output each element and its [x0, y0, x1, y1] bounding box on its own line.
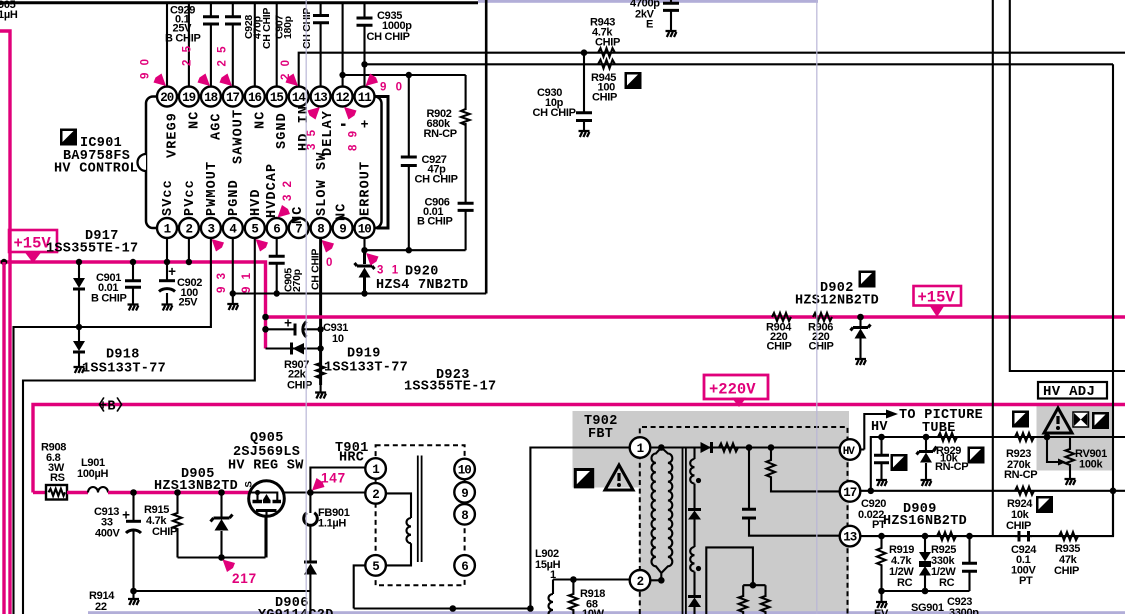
test wedge pin3 — [212, 239, 225, 252]
flag symbol T902 — [574, 468, 594, 488]
node dot pin17 right — [1110, 488, 1117, 495]
svg-text:CHIP: CHIP — [1054, 565, 1079, 577]
svg-text:3300p: 3300p — [949, 607, 979, 614]
node dot HV res branch — [768, 444, 775, 451]
svg-text:HZS12NB2TD: HZS12NB2TD — [795, 294, 879, 309]
resistor R904 — [766, 313, 792, 353]
node dot gate net — [218, 554, 225, 561]
capacitor C906 — [417, 197, 474, 228]
pin 14 — [289, 87, 309, 107]
svg-text:+: + — [361, 119, 369, 134]
svg-text:NC: NC — [335, 203, 350, 221]
wire pin8 net vertical — [319, 239, 322, 385]
T901 core — [418, 456, 422, 563]
svg-text:HZS16NB2TD: HZS16NB2TD — [883, 514, 967, 529]
capacitor C902 electrolytic — [159, 262, 202, 309]
svg-text:17: 17 — [226, 91, 240, 105]
wire R902/C906 branch vertical — [465, 75, 467, 250]
+220V label box — [704, 375, 768, 399]
transformer T901 label — [335, 441, 369, 466]
capacitor C901 — [91, 262, 141, 305]
diode D906 label — [258, 596, 334, 614]
wire pin16 line up — [254, 3, 256, 87]
node dot R929 — [923, 434, 930, 441]
svg-text:AGC: AGC — [209, 112, 224, 140]
resistor R923 — [1004, 433, 1037, 481]
wire FB901 branch down — [309, 493, 311, 562]
svg-text:270p: 270p — [291, 269, 303, 292]
pin 17 — [223, 87, 243, 107]
inductor L902 — [535, 548, 561, 614]
svg-text:CH CHIP: CH CHIP — [367, 31, 410, 43]
svg-text:HV CONTROL: HV CONTROL — [54, 162, 138, 177]
node dot rail x3 — [1, 259, 7, 265]
transistor Q905 label — [228, 431, 304, 474]
svg-text:+B: +B — [99, 400, 116, 415]
svg-text:HVDCAP: HVDCAP — [265, 163, 280, 218]
pin 3 — [201, 218, 221, 238]
node dot line C / C927 branch — [406, 72, 412, 78]
ground EV — [874, 591, 889, 614]
T902 pin 2 — [630, 570, 651, 591]
pin 9 — [333, 218, 353, 238]
svg-text:HRC: HRC — [339, 451, 364, 466]
node dot R919 — [878, 533, 885, 540]
resistor R925 — [931, 532, 956, 589]
diode D902 label — [795, 281, 879, 309]
+B / +220V rail — [33, 405, 1125, 493]
node dot lower network — [750, 582, 757, 589]
svg-text:RS: RS — [50, 472, 65, 484]
diode D919 label — [324, 347, 408, 376]
svg-text:217: 217 — [232, 571, 257, 586]
svg-text:6: 6 — [273, 223, 280, 237]
svg-text:20: 20 — [160, 91, 174, 105]
node dot HV net left — [878, 434, 885, 441]
svg-text:YG9114C2D: YG9114C2D — [258, 608, 334, 614]
T901 pin 9 — [454, 482, 475, 503]
capacitor C930 — [533, 53, 593, 130]
svg-text:ERROUT: ERROUT — [359, 161, 374, 216]
wire pin10 D920 branch — [363, 250, 366, 293]
transformer T901 box — [376, 445, 465, 585]
wire HV output line — [695, 446, 841, 448]
resistor internal lower left — [739, 596, 748, 614]
svg-text:HV REG SW: HV REG SW — [228, 459, 304, 474]
svg-text:11: 11 — [358, 91, 372, 105]
resistor R943 in line A — [590, 17, 620, 57]
node dot rail C901 — [130, 259, 136, 265]
capacitor C920 label — [858, 498, 886, 531]
HV ADJ grey panel — [1037, 405, 1115, 471]
svg-text:0: 0 — [326, 257, 334, 269]
test wedge pin14 — [286, 74, 299, 87]
svg-text:〉: 〉 — [116, 396, 131, 415]
node dot HV cap branch — [746, 444, 753, 451]
HV ADJ label box — [1038, 382, 1107, 400]
T901 primary winding — [386, 493, 411, 565]
wire gate net — [178, 517, 266, 558]
page fold line right — [816, 0, 818, 614]
svg-text:RN-CP: RN-CP — [935, 461, 968, 473]
diode D918 — [73, 327, 85, 366]
T902 pin 17 — [840, 481, 861, 502]
wire pin18 line up — [210, 3, 212, 87]
svg-text:S: S — [244, 481, 255, 487]
svg-text:9 0: 9 0 — [140, 57, 152, 79]
node dot D902 — [857, 314, 864, 321]
svg-text:NC: NC — [253, 111, 268, 129]
wedge +220V — [732, 398, 747, 408]
svg-text:CHIP: CHIP — [592, 92, 617, 104]
test wedge pin13 — [308, 107, 321, 120]
node dot D918 top — [76, 324, 82, 330]
node dot D920 gnd net — [361, 290, 367, 296]
pin 2 — [179, 218, 199, 238]
wire EV net — [882, 590, 970, 592]
node dot C905 gnd — [274, 290, 280, 296]
svg-text:RN-CP: RN-CP — [1004, 469, 1037, 481]
+B feed wire to R908 — [33, 491, 46, 494]
svg-text:SAWOUT: SAWOUT — [231, 109, 246, 164]
capacitor C935 — [357, 10, 413, 43]
svg-text:SGND: SGND — [275, 112, 290, 149]
diode D906 — [304, 562, 317, 614]
capacitor C905 — [269, 249, 322, 292]
svg-text:+220V: +220V — [709, 381, 756, 399]
resistor R918 — [569, 580, 605, 614]
test wedge pin18 — [198, 74, 211, 87]
svg-text:RN-CP: RN-CP — [424, 128, 457, 140]
wire C913 bottom net — [134, 590, 311, 592]
capacitor 4700p 2kV E — [630, 0, 679, 31]
svg-text:RC: RC — [897, 577, 913, 589]
wire Q905 drain to T901 — [284, 491, 375, 493]
capacitor C923 — [947, 536, 979, 614]
resistor R929 label — [935, 445, 968, 473]
svg-text:SLOW SW: SLOW SW — [315, 152, 330, 216]
svg-text:PT: PT — [1019, 575, 1033, 587]
wire pin6 stub — [276, 239, 278, 294]
diode D923 label — [404, 368, 496, 395]
zener D920 — [355, 263, 375, 278]
+15V label box left — [9, 230, 57, 253]
svg-text:+: + — [122, 510, 130, 525]
T902 secondary winding upper — [690, 448, 701, 509]
capacitor C927 — [401, 154, 458, 186]
ground C913 — [128, 599, 139, 605]
svg-text:8: 8 — [461, 509, 468, 523]
wire Q905 gate down — [265, 516, 267, 557]
svg-text:22: 22 — [95, 601, 107, 613]
svg-text:9: 9 — [461, 487, 468, 501]
wedge +15V left — [25, 253, 41, 264]
svg-text:NC: NC — [291, 206, 306, 224]
ground 4700p — [666, 31, 677, 37]
svg-text:1: 1 — [372, 463, 379, 477]
wire heater net — [553, 578, 631, 580]
wire line B from pin11 node — [365, 63, 1114, 65]
wire line C from pin12 node — [343, 74, 466, 76]
node dot rail D917 — [76, 259, 82, 265]
ground D902 — [855, 359, 866, 365]
ground C930 — [579, 131, 590, 137]
svg-text:NC: NC — [187, 111, 202, 129]
wire line C corner into R902 branch — [343, 74, 466, 76]
transistor Q905 — [244, 481, 285, 517]
test wedge pin12 — [344, 107, 357, 120]
pin 10 — [355, 218, 375, 238]
capacitor C924 — [1011, 531, 1037, 587]
flag symbol R924 — [1036, 496, 1053, 513]
node dot bottom rail b — [527, 605, 534, 612]
ground C901 — [128, 305, 139, 311]
capacitor HV filter — [874, 437, 889, 479]
svg-text:1SS133T-77: 1SS133T-77 — [324, 361, 408, 376]
test wedge pin11 — [366, 74, 379, 87]
resistor R919 — [877, 536, 914, 591]
node dot RV901 wiper — [1044, 434, 1051, 441]
node dot R918 — [570, 576, 577, 583]
svg-text:8: 8 — [317, 223, 324, 237]
wire pin15 line up — [276, 3, 278, 87]
svg-text:19: 19 — [182, 91, 196, 105]
svg-text:15: 15 — [270, 91, 284, 105]
svg-text:CHIP: CHIP — [1006, 520, 1031, 532]
resistor R935 — [1054, 532, 1080, 577]
svg-text:5: 5 — [372, 560, 379, 574]
svg-text:CH CHIP: CH CHIP — [261, 8, 273, 49]
svg-text:B CHIP: B CHIP — [91, 293, 126, 305]
potentiometer RV901 — [1047, 437, 1107, 478]
wire left magenta feeder — [0, 31, 10, 614]
wire pin17 net — [860, 490, 1125, 492]
svg-text:3 1: 3 1 — [377, 265, 401, 277]
zener R929 branch — [917, 437, 937, 479]
T902 primary winding — [651, 444, 701, 583]
capacitor internal HV branch — [742, 448, 840, 536]
node dot pin17 C920 — [868, 488, 875, 495]
wire pin20 line up — [166, 3, 168, 87]
svg-text:PGND: PGND — [227, 179, 242, 216]
node dot EV net b — [922, 588, 929, 595]
node dot D919 — [317, 345, 323, 351]
svg-text:CHIP: CHIP — [595, 37, 620, 49]
top lavender page edge band — [478, 0, 818, 3]
warning triangle T902 — [605, 465, 633, 490]
svg-text:PVcc: PVcc — [183, 179, 198, 216]
inductor L901 — [77, 457, 108, 493]
svg-text:HZS13NB2TD: HZS13NB2TD — [154, 479, 238, 494]
transformer T902 dashed box — [640, 427, 848, 614]
diode D920 label — [376, 265, 468, 294]
svg-text:1: 1 — [637, 442, 644, 456]
svg-text:100k: 100k — [1079, 459, 1103, 471]
flag symbol at R945 — [625, 72, 642, 89]
FBT grey shaded area — [573, 411, 850, 614]
svg-text:+15V: +15V — [918, 289, 956, 307]
svg-text:15µH: 15µH — [535, 559, 561, 571]
pin 18 — [201, 87, 221, 107]
svg-text:HZS4 7NB2TD: HZS4 7NB2TD — [376, 278, 468, 293]
wire pin5 net to left edge — [23, 239, 255, 614]
wire HV node net — [871, 437, 1125, 491]
T901 pin 8 — [454, 504, 475, 525]
node dot line C pin12 — [339, 72, 345, 78]
flag symbol IC901 — [60, 129, 77, 146]
svg-text:8 9: 8 9 — [348, 129, 360, 151]
transformer T902 FBT label — [584, 414, 618, 442]
svg-text:PWMOUT: PWMOUT — [205, 161, 220, 216]
svg-text:10: 10 — [458, 464, 472, 478]
svg-text:1µH: 1µH — [0, 9, 18, 21]
T902 core — [683, 448, 686, 614]
resistor internal lower right — [761, 596, 770, 614]
diode D919 — [266, 343, 321, 355]
node dot SG901 — [922, 533, 929, 540]
ground R929 branch — [921, 480, 932, 486]
svg-text:HVD: HVD — [249, 188, 264, 216]
wire HD input line A with corner to pin14 — [299, 53, 1125, 87]
dash mark near pin12 — [341, 124, 346, 126]
svg-text:180p: 180p — [282, 16, 294, 39]
svg-text:E: E — [646, 19, 653, 31]
svg-text:17: 17 — [843, 486, 857, 500]
label TO PICTURE TUBE — [899, 408, 983, 436]
IC901 notch — [138, 154, 147, 171]
svg-text:100µH: 100µH — [77, 468, 108, 480]
svg-text:HV ADJ: HV ADJ — [1043, 384, 1095, 400]
node dot line B pin11 — [361, 61, 367, 67]
wire ground net C905 — [233, 292, 486, 294]
diode D909 label — [883, 502, 967, 529]
svg-text:25V: 25V — [179, 297, 199, 309]
op-amp IC901 body — [146, 97, 382, 229]
node dot D905 — [218, 489, 225, 496]
svg-text:CH CHIP: CH CHIP — [415, 174, 458, 186]
resistor R908 power box — [41, 442, 67, 500]
node dot C913 — [130, 489, 137, 496]
svg-text:CH CHIP: CH CHIP — [533, 107, 576, 119]
ferrite bead FB901 — [304, 507, 350, 530]
wire pin1 stub — [166, 239, 168, 262]
flag symbol HVADJ right — [1092, 412, 1109, 429]
svg-text:9 1: 9 1 — [241, 271, 253, 293]
svg-text:CHIP: CHIP — [287, 380, 312, 392]
svg-text:1SS355TE-17: 1SS355TE-17 — [404, 380, 496, 395]
resistor R906 — [808, 313, 834, 353]
resistor R915 — [144, 493, 182, 558]
wire pin11 line up — [363, 3, 365, 87]
wire T901 pin5 to bottom rail — [354, 565, 366, 608]
T902 secondary winding lower — [690, 547, 701, 596]
test wedge pin20 — [154, 74, 167, 87]
svg-text:HV: HV — [843, 446, 856, 458]
pin 15 — [267, 87, 287, 107]
wire vertical bus x1010 with corner — [1010, 0, 1125, 371]
resistor R907 — [284, 359, 325, 392]
wire pin12 line up — [342, 3, 344, 87]
node dot C931 right — [317, 326, 323, 332]
pin 11 — [355, 87, 375, 107]
svg-text:SG901: SG901 — [911, 602, 944, 614]
svg-text:400V: 400V — [95, 528, 120, 540]
resistor R945 in line B — [591, 60, 617, 104]
svg-text:D918: D918 — [106, 348, 140, 363]
test wedge pin8 — [322, 240, 335, 253]
svg-text:16: 16 — [248, 91, 262, 105]
resistor R902 — [424, 108, 470, 140]
svg-text:9 0: 9 0 — [380, 82, 405, 94]
spark gap SG901 / D909 — [919, 536, 931, 591]
ground C902 — [162, 305, 173, 311]
wire to picture tube arrow — [860, 410, 898, 450]
svg-text:2: 2 — [372, 488, 379, 502]
capacitor C929 — [165, 5, 219, 45]
wire pin13 net — [860, 491, 1113, 536]
wire top supply line from L905 — [0, 1, 478, 4]
wire bracket pin11 to pin10 — [376, 97, 389, 229]
svg-text:CH CHIP: CH CHIP — [301, 8, 313, 49]
resistor R914 label — [89, 590, 115, 613]
diode D905 label — [154, 467, 238, 494]
svg-text:5: 5 — [251, 223, 258, 237]
wire T901 pin1 branch — [310, 468, 375, 493]
pin 1 — [157, 218, 177, 238]
wire C927 branch vertical — [408, 75, 410, 250]
svg-text:HV: HV — [871, 420, 888, 435]
svg-text:SVcc: SVcc — [161, 179, 176, 216]
resistor R929 zigzag inline — [938, 433, 957, 441]
+15V label box right — [914, 286, 962, 307]
wire R908 to L901 — [67, 491, 88, 494]
wire pin3 net to left edge — [14, 239, 211, 614]
wire line B right corner down — [1112, 64, 1114, 536]
zener D905 — [211, 493, 233, 558]
ground RV901 — [1065, 479, 1076, 485]
wire bottom return rail — [354, 448, 631, 609]
svg-text:FBT: FBT — [588, 427, 613, 442]
svg-text:CHIP: CHIP — [152, 526, 177, 538]
wire pin10 to R902 net — [365, 239, 466, 250]
T901 pin 2 — [365, 483, 386, 504]
node dot rail pin2 — [186, 259, 192, 265]
node dot EV net — [878, 588, 885, 595]
svg-text:2: 2 — [637, 575, 644, 589]
svg-text:10W: 10W — [582, 608, 605, 614]
svg-text:147: 147 — [321, 471, 346, 486]
T901 pin 5 — [365, 555, 386, 576]
+B label — [90, 396, 131, 415]
svg-text:CHIP: CHIP — [809, 341, 834, 353]
capacitor C913 electrolytic — [94, 493, 141, 599]
wire pin19 line up — [188, 3, 190, 87]
svg-text:2 5: 2 5 — [182, 44, 194, 66]
svg-text:CHIP: CHIP — [767, 341, 792, 353]
page fold line left — [305, 0, 307, 614]
svg-text:VREG9: VREG9 — [166, 112, 181, 158]
node dot rail pin1 — [164, 259, 170, 265]
test wedge pin5 — [256, 239, 269, 252]
svg-text:B CHIP: B CHIP — [165, 33, 200, 45]
inductor L905 label (clipped at page edge) — [0, 0, 18, 21]
HV rectifier diode — [701, 442, 712, 453]
zener D902 — [851, 317, 871, 358]
svg-text:10: 10 — [332, 333, 344, 345]
flag symbol HV filter — [891, 454, 908, 471]
pin 12 — [333, 87, 353, 107]
test wedge 217 — [223, 560, 236, 573]
